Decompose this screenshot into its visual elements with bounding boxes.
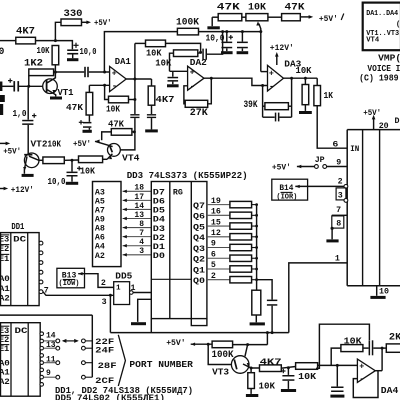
ground emitter cap bbox=[281, 389, 296, 392]
resistor 2K2 output bbox=[386, 344, 400, 352]
wire output Q2 bbox=[207, 257, 230, 259]
svg-text:DA1..DA4: DA1..DA4 bbox=[366, 10, 398, 18]
svg-text:7: 7 bbox=[139, 229, 144, 238]
node summing bus bbox=[255, 214, 258, 217]
ground output load bbox=[145, 129, 158, 132]
svg-text:DA4: DA4 bbox=[381, 385, 399, 396]
node DA1 +input bbox=[103, 71, 106, 74]
transistor VT2 bbox=[24, 153, 39, 168]
svg-text:-: - bbox=[190, 82, 195, 92]
node wiper tap bbox=[259, 30, 262, 33]
wire VT4 emitter bbox=[103, 158, 108, 160]
wire base down bbox=[208, 344, 231, 364]
wire DD3 pin1 stub bbox=[150, 319, 152, 333]
node summing bus bbox=[255, 246, 258, 249]
svg-text:VT4: VT4 bbox=[122, 152, 140, 163]
wire to summing bus bbox=[252, 236, 257, 238]
svg-text:VT2: VT2 bbox=[31, 138, 48, 149]
wire 10K to output node bbox=[129, 99, 135, 101]
jumper pad left bbox=[56, 346, 60, 350]
svg-text:E1: E1 bbox=[0, 344, 9, 354]
wire data bus D4 pin 13 bbox=[123, 218, 152, 220]
svg-text:+5V': +5V' bbox=[3, 146, 21, 156]
svg-text:+5V': +5V' bbox=[94, 18, 112, 28]
jumper pad left bbox=[56, 361, 60, 365]
wire to +5V arrow bbox=[82, 21, 88, 23]
ground pin 10 bbox=[376, 286, 378, 296]
wire pot wiper to DA3 +input bbox=[261, 71, 268, 73]
capacitor output load bbox=[151, 105, 153, 114]
wire data bus D6 pin 17 bbox=[123, 199, 152, 201]
node W1 base net bbox=[266, 331, 269, 334]
jumper pad right bbox=[82, 339, 86, 343]
node summing bus bbox=[255, 225, 258, 228]
svg-text:2: 2 bbox=[338, 177, 343, 186]
wire VT4 collector bbox=[120, 132, 135, 150]
resistor ladder R3 bbox=[230, 223, 252, 229]
jumper box 3 bbox=[336, 188, 346, 200]
wire cap to VT1 base bbox=[19, 85, 47, 87]
jumper pad right bbox=[82, 361, 86, 365]
svg-text:-: - bbox=[269, 82, 274, 92]
wire to DA4 +input bbox=[318, 364, 358, 366]
resistor 10K collector VT1 bbox=[52, 46, 59, 65]
tick fragment bbox=[341, 14, 344, 21]
wire output Q0 bbox=[207, 279, 230, 281]
capacitor 1,0 electrolytic VT2 bbox=[27, 86, 29, 119]
svg-text:1: 1 bbox=[335, 254, 340, 263]
svg-text:+: + bbox=[269, 69, 274, 78]
resistor ladder R5 bbox=[230, 244, 252, 250]
power +5V arrow left edge bbox=[0, 142, 6, 144]
resistor 330 bbox=[61, 19, 82, 26]
node junction 4K7/10K/330 bbox=[54, 39, 57, 42]
svg-text:A2: A2 bbox=[95, 251, 105, 261]
svg-text:24F: 24F bbox=[95, 345, 114, 355]
svg-text:A0: A0 bbox=[0, 274, 10, 284]
wire to summing bus bbox=[252, 214, 257, 216]
svg-text:VT3: VT3 bbox=[212, 367, 229, 378]
resistor 4K7 input bbox=[16, 37, 36, 44]
svg-text:DD1: DD1 bbox=[11, 221, 24, 232]
svg-text:9: 9 bbox=[46, 369, 51, 378]
svg-text:Q7: Q7 bbox=[193, 201, 205, 211]
resistor 100K VT3 base bbox=[212, 341, 233, 348]
resistor 27K feedback DA2 bbox=[185, 100, 208, 107]
wire VT1 collector to cap bbox=[55, 71, 84, 73]
resistor 10K DA3 load bbox=[304, 78, 306, 84]
bus tap box B13 bbox=[57, 268, 85, 288]
capacitor input 1,0 series bbox=[13, 81, 15, 91]
resistor 100K bbox=[177, 28, 198, 35]
svg-text:10K: 10K bbox=[37, 46, 50, 56]
wire 10K fb right bbox=[363, 347, 369, 349]
wire to summing bus bbox=[252, 247, 257, 249]
wire output Q5 bbox=[207, 225, 230, 227]
svg-text:D0: D0 bbox=[153, 251, 165, 261]
wire to summing bus bbox=[252, 257, 257, 259]
svg-text:+12V': +12V' bbox=[270, 43, 294, 53]
wire to summing bus bbox=[252, 204, 257, 206]
wire DA2 -input bbox=[184, 86, 188, 104]
svg-text:1,0: 1,0 bbox=[13, 109, 27, 119]
wire DD2 pin 9 to jumper pad bbox=[44, 376, 56, 378]
wire input left bbox=[0, 40, 16, 42]
wire 10K left to +input bbox=[170, 53, 174, 71]
wire port bus vertical bbox=[91, 315, 93, 377]
svg-text:DC: DC bbox=[15, 326, 28, 336]
wire data bus D2 pin 7 bbox=[123, 236, 152, 238]
node summing bus bbox=[255, 235, 258, 238]
svg-text:100K: 100K bbox=[212, 349, 235, 361]
wire cap to DA1 +input bbox=[89, 71, 110, 73]
wire to summing bus bbox=[252, 225, 257, 227]
ground 10,0 VT2 bbox=[66, 182, 78, 185]
ground 10K VT3 bbox=[250, 389, 252, 394]
svg-text:(IOW): (IOW) bbox=[59, 280, 80, 288]
svg-text:JP: JP bbox=[315, 155, 325, 165]
svg-text:10K: 10K bbox=[259, 380, 276, 391]
wire DAC cap down to W1 bbox=[271, 306, 273, 333]
svg-text:0: 0 bbox=[0, 46, 5, 57]
ground bias network bbox=[88, 128, 90, 130]
svg-text:2K: 2K bbox=[389, 331, 400, 343]
svg-text:1: 1 bbox=[131, 284, 136, 293]
wire 1K to IC pin 6 bbox=[317, 106, 347, 149]
svg-text:A2: A2 bbox=[0, 294, 10, 304]
jumper pad left bbox=[56, 375, 60, 379]
node DA3 -input net bbox=[261, 84, 264, 87]
node VT3 collector bbox=[246, 343, 249, 346]
ground DA2 +input bbox=[167, 84, 179, 87]
resistor 4K7 output load bbox=[148, 86, 155, 105]
wire DA3 feedback right bbox=[291, 78, 293, 117]
wire DA1 output bbox=[126, 78, 151, 80]
node DA4 +input bbox=[336, 364, 339, 367]
wire to summing bus bbox=[252, 279, 257, 281]
svg-text:-: - bbox=[112, 82, 117, 92]
node W1 DAC bbox=[271, 331, 274, 334]
resistor ladder R4 bbox=[230, 234, 252, 240]
transistor VT3 bbox=[245, 345, 248, 357]
node summing bus bbox=[255, 268, 258, 271]
capacitor DAC output bbox=[267, 300, 277, 302]
wire data bus D5 pin 14 bbox=[123, 208, 152, 210]
wire DD2 pin 11 to jumper pad bbox=[44, 362, 56, 364]
svg-text:+5V': +5V' bbox=[363, 108, 381, 118]
capacitor coupling to VT4 bbox=[130, 114, 139, 115]
svg-text:1K2: 1K2 bbox=[24, 58, 43, 70]
node 47K cap VT4 bbox=[133, 130, 136, 133]
svg-text:10K: 10K bbox=[48, 139, 62, 150]
IC DD3 bottom extension bbox=[191, 319, 207, 326]
ground below 10,0 bbox=[67, 58, 78, 61]
svg-text:10K: 10K bbox=[248, 2, 267, 14]
jumper link arrow 22F bbox=[63, 340, 78, 342]
svg-text:B13: B13 bbox=[62, 270, 77, 280]
transistor VT4 internals bbox=[110, 145, 113, 152]
svg-text:4: 4 bbox=[139, 238, 144, 247]
jumper pad right bbox=[82, 346, 86, 350]
capacitor series DA4 out bbox=[369, 340, 371, 355]
wire DA1 -input bbox=[89, 84, 109, 86]
wire pad to port bus bbox=[85, 362, 92, 364]
wire summing bus bbox=[256, 205, 258, 291]
wire -input to feedback 10K bbox=[105, 85, 109, 99]
node VT1 base bbox=[27, 85, 30, 88]
svg-text:RG: RG bbox=[173, 188, 183, 198]
svg-text:Q4: Q4 bbox=[193, 233, 205, 243]
wire output Q4 bbox=[207, 236, 230, 238]
wire B13 to DD5 pin2 bbox=[78, 272, 82, 275]
node emitter follower bbox=[71, 159, 74, 162]
wire +5V rail top bbox=[55, 22, 61, 40]
svg-text:13: 13 bbox=[46, 341, 56, 350]
wire W1 down to VT3 collector line bbox=[266, 333, 268, 345]
jumper pad right bbox=[82, 375, 86, 379]
capacitor DA4 +input filter bbox=[336, 365, 338, 386]
wire DA4 output bbox=[375, 370, 382, 372]
capacitor DA2 +input to ground bbox=[172, 71, 174, 76]
IC DD2 decoder bbox=[1, 323, 41, 397]
wire DA3 feedback left bbox=[262, 86, 264, 118]
resistor ladder R7 bbox=[230, 266, 252, 272]
wire 100K to cap nodes bbox=[199, 31, 262, 33]
svg-text:10K: 10K bbox=[296, 65, 312, 76]
svg-text:27K: 27K bbox=[190, 107, 209, 119]
ground VT2 emitter bbox=[22, 174, 34, 177]
resistor ladder R2 bbox=[230, 212, 252, 218]
node DA4 output bbox=[381, 347, 384, 350]
svg-text:330: 330 bbox=[64, 8, 83, 20]
svg-text:(К: (К bbox=[396, 21, 400, 29]
svg-text:47K: 47K bbox=[217, 2, 241, 14]
svg-text:8: 8 bbox=[336, 220, 341, 229]
node DA2 output bbox=[210, 77, 213, 80]
ground 10K load bbox=[304, 105, 306, 111]
svg-text:10,0: 10,0 bbox=[80, 47, 97, 57]
svg-text:1: 1 bbox=[116, 284, 121, 292]
IC DD5 gate 74LS02 bbox=[114, 282, 130, 305]
svg-text:Q5: Q5 bbox=[193, 222, 205, 232]
svg-text:+5V': +5V' bbox=[166, 338, 186, 348]
wire data bus D1 pin 4 bbox=[123, 245, 152, 247]
svg-text:DA1: DA1 bbox=[115, 56, 131, 67]
wire DD2 pin 13 to jumper pad bbox=[44, 347, 56, 349]
power +12V arrow left edge bbox=[0, 188, 4, 190]
wire mic input bbox=[0, 85, 13, 87]
svg-text:DD5: DD5 bbox=[115, 270, 132, 281]
svg-text:3: 3 bbox=[102, 298, 107, 307]
svg-text:100K: 100K bbox=[176, 16, 200, 28]
node VT1 collector bbox=[54, 71, 57, 74]
svg-text:10K: 10K bbox=[298, 371, 316, 382]
svg-text:10,0: 10,0 bbox=[48, 177, 66, 187]
node cap A bbox=[225, 30, 228, 33]
power +5V arrow top right bbox=[300, 16, 309, 18]
wire DD5 output to DD3 C pin bbox=[133, 292, 151, 294]
resistor 10K VT2 collector bbox=[39, 159, 43, 161]
wire pad to port bus bbox=[85, 376, 92, 378]
wire 4K7 from DA1 out bbox=[151, 79, 153, 86]
svg-text:E1: E1 bbox=[0, 254, 9, 264]
wire data bus D7 pin 18 bbox=[123, 190, 152, 192]
wire 100K to collector node bbox=[233, 344, 268, 346]
capacitor feedback DA3 bbox=[263, 116, 275, 118]
capacitor 10,0 pot line bbox=[226, 32, 228, 42]
wire Q0 row to DAC cap bbox=[257, 280, 273, 300]
svg-text:Q1: Q1 bbox=[193, 265, 205, 275]
wire output Q3 bbox=[207, 247, 230, 249]
wire VT3 emitter bbox=[243, 364, 259, 368]
svg-text:1K: 1K bbox=[324, 90, 334, 101]
power +12V arrow DA3 bbox=[276, 55, 278, 65]
svg-text:11: 11 bbox=[46, 355, 56, 364]
svg-text:10K: 10K bbox=[80, 165, 95, 176]
node feedback/output bbox=[133, 98, 136, 101]
svg-text:Q3: Q3 bbox=[193, 244, 205, 254]
svg-text:4K7: 4K7 bbox=[16, 26, 35, 38]
capacitor coupling DA1 +input bbox=[84, 67, 86, 77]
wire pad to port bus bbox=[85, 340, 92, 342]
output bubbles DD2 bbox=[40, 332, 44, 336]
resistor 10K DA4 feedback bbox=[341, 345, 363, 352]
svg-text:(IOR): (IOR) bbox=[276, 193, 297, 201]
svg-text:17: 17 bbox=[134, 193, 144, 202]
transistor VT4 bbox=[108, 144, 121, 157]
resistor ladder terminator bbox=[252, 290, 261, 315]
capacitor second pot line bbox=[241, 32, 243, 42]
node summing bus bbox=[255, 257, 258, 260]
node summing bus bbox=[255, 203, 258, 206]
svg-text:DD: DD bbox=[395, 117, 400, 126]
svg-text:20: 20 bbox=[379, 122, 389, 131]
wire VT4 base arrow +5V bbox=[95, 141, 113, 146]
wire 10K fb to +input bbox=[331, 348, 341, 365]
svg-text:4K7: 4K7 bbox=[260, 357, 282, 368]
svg-text:(C) 1989: (C) 1989 bbox=[359, 73, 399, 84]
svg-text:47K: 47K bbox=[66, 102, 83, 113]
wire DA3 output bbox=[284, 77, 318, 79]
node pin3 tap bbox=[109, 294, 112, 297]
svg-text:3: 3 bbox=[338, 191, 343, 200]
power +5V arrow top-left bbox=[86, 21, 91, 25]
ground cap A bbox=[221, 51, 233, 54]
resistor 47K top row left bbox=[212, 16, 218, 18]
svg-text:14: 14 bbox=[46, 332, 56, 341]
svg-text:DD3 74LS373 (К555ИР22): DD3 74LS373 (К555ИР22) bbox=[127, 170, 248, 181]
resistor 10K feedback DA1 bbox=[109, 96, 129, 103]
svg-text:8: 8 bbox=[139, 220, 144, 229]
svg-text:Q0: Q0 bbox=[193, 276, 205, 286]
svg-text:VMP(: VMP( bbox=[378, 52, 400, 63]
ground jumper 8 bbox=[326, 239, 338, 242]
op-amp DA4 bbox=[357, 359, 375, 382]
wire 10K to VT1 collector node bbox=[54, 65, 56, 72]
node DA1 -input bbox=[103, 84, 106, 87]
node DA2 input network bbox=[199, 51, 202, 54]
output bubbles DD1 bbox=[39, 241, 43, 245]
resistor 1K2 feedback VT1 bbox=[29, 69, 54, 76]
svg-text:+: + bbox=[359, 363, 364, 372]
svg-text:DA2: DA2 bbox=[190, 57, 207, 68]
svg-text:DD5 74LS02 (К555ЛЕ1): DD5 74LS02 (К555ЛЕ1) bbox=[55, 392, 165, 400]
wire data bus D0 pin 3 bbox=[123, 254, 152, 256]
svg-text:+5V': +5V' bbox=[319, 14, 338, 24]
wire DD2 pin 14 to jumper pad bbox=[44, 340, 56, 342]
svg-text:+12V': +12V' bbox=[11, 185, 34, 195]
svg-text:10K: 10K bbox=[344, 335, 362, 346]
svg-text:28F: 28F bbox=[98, 361, 117, 371]
resistor 10K to DA4 bbox=[296, 363, 318, 370]
wire 4K7 to node bbox=[36, 40, 56, 42]
resistor 39K feedback DA3 bbox=[263, 105, 265, 107]
transistor VT1 bbox=[43, 79, 58, 94]
svg-text:4K7: 4K7 bbox=[156, 94, 175, 105]
resistor 1K output bbox=[316, 78, 318, 85]
wire 10K to cap node bbox=[166, 43, 201, 52]
mic connector fragments at left edge bbox=[0, 82, 2, 92]
resistor 4K7 emitter out bbox=[260, 365, 282, 372]
wire output Q7 bbox=[207, 204, 230, 206]
svg-text:3: 3 bbox=[139, 247, 144, 256]
wire to node bbox=[64, 159, 78, 161]
wire to cap node bbox=[281, 367, 295, 369]
wire output Q1 bbox=[207, 268, 230, 270]
svg-text:Q2: Q2 bbox=[193, 255, 205, 265]
ground DD3 OE pin bbox=[138, 299, 152, 322]
ground terminator bbox=[255, 315, 257, 322]
svg-text:13: 13 bbox=[134, 211, 144, 220]
jumper pad left bbox=[56, 339, 60, 343]
wire data bus D3 pin 8 bbox=[123, 227, 152, 229]
resistor 10K DA2 +input bbox=[174, 50, 198, 57]
ground DA4 filter bbox=[330, 395, 344, 398]
capacitor series DA2 net bbox=[202, 49, 204, 60]
svg-text:10K: 10K bbox=[106, 104, 120, 115]
svg-text:10: 10 bbox=[379, 287, 389, 296]
resistor ladder R6 bbox=[230, 255, 252, 261]
resistor 47K VT4 bbox=[111, 129, 132, 136]
resistor ladder R1 bbox=[230, 201, 252, 207]
svg-text:IN: IN bbox=[350, 144, 359, 154]
node VT3 base net bbox=[207, 343, 210, 346]
bus tap box B14 bbox=[272, 179, 308, 200]
svg-text:47K: 47K bbox=[108, 119, 124, 130]
svg-text:PORT NUMBER: PORT NUMBER bbox=[129, 359, 193, 370]
wire top loop DAC to DA4 bbox=[316, 324, 369, 368]
wire DA2 output to DA3 bbox=[204, 78, 268, 85]
wire select rail y315 bbox=[0, 314, 92, 316]
bracket port number bbox=[118, 335, 125, 386]
wire select line down bbox=[109, 295, 111, 332]
svg-text:14: 14 bbox=[134, 202, 144, 211]
output bubble DD5 bbox=[130, 291, 134, 295]
svg-text:18: 18 bbox=[134, 184, 144, 193]
bubble pin 2 bbox=[344, 185, 348, 189]
resistor 47K top row right bbox=[268, 16, 282, 18]
wire to summing bus bbox=[252, 268, 257, 270]
op-amp DA2 bbox=[188, 66, 204, 90]
potentiometer 10K top bbox=[242, 16, 246, 18]
wire DA1 output vertical chain bbox=[134, 43, 136, 114]
svg-text:A1: A1 bbox=[0, 284, 10, 294]
node cap B bbox=[241, 30, 244, 33]
svg-text:+: + bbox=[190, 69, 195, 78]
svg-text:+5V': +5V' bbox=[272, 162, 291, 172]
power +5V pin 20 bbox=[373, 118, 375, 130]
bubble pin 3 bbox=[344, 199, 348, 203]
